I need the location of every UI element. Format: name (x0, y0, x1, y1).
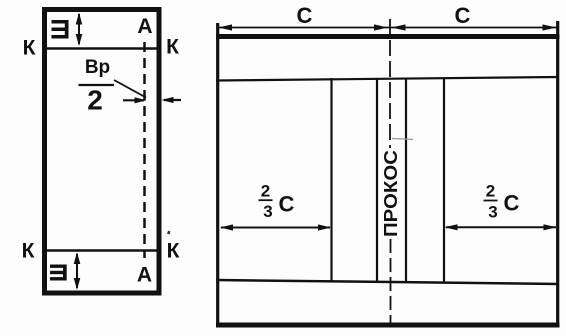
headland line K-K bottom (44, 249, 159, 252)
right diagram: top edge (216, 34, 560, 39)
label 2/3 C right (484, 182, 520, 222)
label sh bottom (rotated) (50, 265, 67, 281)
right diagram: left edge (216, 23, 219, 327)
headland width arrow bottom (74, 252, 81, 290)
svg-text:2: 2 (261, 182, 270, 201)
leader line from Bp/2 (114, 80, 146, 98)
svg-text:С: С (504, 191, 520, 216)
svg-text:3: 3 (488, 203, 497, 222)
svg-text:К: К (166, 36, 179, 59)
right diagram: bottom edge (216, 323, 560, 328)
svg-text:Вр: Вр (85, 57, 110, 78)
svg-text:К: К (23, 37, 36, 60)
svg-text:А: А (137, 264, 152, 287)
label 2/3 C left (259, 182, 295, 222)
inner line above bottom edge (216, 280, 559, 284)
faint smudge right of centerline top (392, 139, 413, 140)
Bp/2 measure arrows (123, 97, 181, 104)
label sh top (rotated) (52, 20, 69, 39)
svg-text:3: 3 (263, 202, 272, 221)
svg-text:С: С (279, 192, 295, 217)
svg-text:К: К (167, 240, 180, 263)
inner line below top edge (216, 77, 559, 81)
svg-text:ПРОКОС: ПРОКОС (380, 150, 401, 237)
vertical extension line left (2/3 C boundary) (330, 78, 332, 282)
2/3 C dimension arrow right (445, 224, 557, 230)
center line of prokos strip (upper part) (389, 19, 391, 148)
center line of prokos strip (lower part) (390, 239, 392, 324)
right diagram: right edge (556, 21, 559, 327)
svg-text:С: С (455, 3, 471, 28)
svg-text:2: 2 (87, 85, 103, 116)
headland width arrow top (76, 13, 83, 47)
dashed pass line A-A (143, 42, 146, 258)
svg-text:К: К (22, 240, 35, 263)
2/3 C dimension arrow left (220, 224, 331, 230)
prokos strip left boundary (376, 78, 378, 282)
headland line K-K top (44, 47, 159, 50)
vertical extension line right (2/3 C boundary) (443, 78, 445, 283)
svg-text:2: 2 (486, 182, 495, 201)
prokos strip right boundary (405, 78, 407, 283)
left diagram: field outline rectangle (45, 10, 160, 294)
svg-text:С: С (297, 3, 313, 28)
svg-text:А: А (137, 15, 152, 38)
label PROKOS (rotated) (380, 150, 401, 237)
small scan speck near bottom-right K (167, 231, 171, 235)
label Bp/2 fraction (79, 57, 115, 116)
top dimension line C-C (219, 24, 558, 30)
